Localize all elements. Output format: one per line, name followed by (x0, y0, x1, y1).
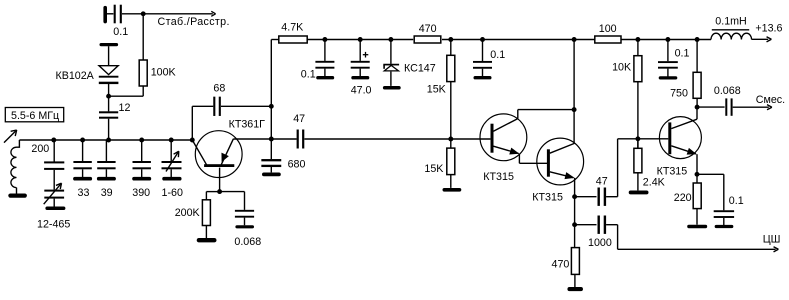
svg-text:680: 680 (288, 159, 306, 171)
svg-text:47: 47 (596, 176, 608, 188)
svg-text:10K: 10K (612, 61, 632, 73)
svg-text:КТ315: КТ315 (532, 191, 563, 203)
svg-text:390: 390 (132, 187, 150, 199)
svg-text:0.068: 0.068 (714, 85, 741, 97)
svg-text:Смес.: Смес. (756, 94, 785, 106)
svg-text:0.1: 0.1 (490, 49, 505, 61)
svg-text:КТ361Г: КТ361Г (229, 119, 266, 131)
svg-text:1000: 1000 (588, 237, 612, 249)
svg-text:12: 12 (119, 102, 131, 114)
svg-text:5.5-6 МГц: 5.5-6 МГц (11, 110, 59, 122)
svg-text:Стаб./Расстр.: Стаб./Расстр. (158, 16, 230, 28)
svg-text:15K: 15K (427, 84, 447, 96)
svg-text:470: 470 (419, 23, 437, 35)
svg-text:0.1: 0.1 (113, 26, 128, 38)
svg-text:100: 100 (599, 23, 617, 35)
svg-text:ЦШ: ЦШ (763, 234, 781, 246)
svg-text:0.1: 0.1 (729, 195, 744, 207)
svg-text:0.1: 0.1 (675, 48, 690, 60)
svg-text:0.068: 0.068 (234, 236, 261, 248)
svg-text:4.7K: 4.7K (281, 21, 304, 33)
svg-text:33: 33 (78, 187, 90, 199)
svg-text:47: 47 (293, 113, 305, 125)
svg-text:15K: 15K (424, 163, 444, 175)
svg-text:КТ315: КТ315 (483, 171, 514, 183)
svg-text:100K: 100K (151, 67, 177, 79)
svg-text:+13.6: +13.6 (755, 22, 782, 34)
svg-text:470: 470 (552, 258, 570, 270)
svg-text:КВ102А: КВ102А (56, 70, 95, 82)
svg-text:2.4K: 2.4K (643, 177, 666, 189)
svg-text:68: 68 (213, 83, 225, 95)
svg-text:0.1: 0.1 (301, 69, 316, 81)
svg-text:0.1mH: 0.1mH (715, 15, 746, 27)
svg-text:КС147: КС147 (404, 63, 436, 75)
svg-text:1-60: 1-60 (162, 187, 183, 199)
svg-text:220: 220 (674, 192, 692, 204)
svg-text:200K: 200K (175, 207, 201, 219)
svg-text:47.0: 47.0 (351, 85, 372, 97)
svg-text:12-465: 12-465 (37, 219, 70, 231)
svg-text:750: 750 (670, 87, 688, 99)
svg-text:39: 39 (101, 187, 113, 199)
svg-text:КТ315: КТ315 (657, 166, 688, 178)
svg-text:200: 200 (31, 143, 49, 155)
